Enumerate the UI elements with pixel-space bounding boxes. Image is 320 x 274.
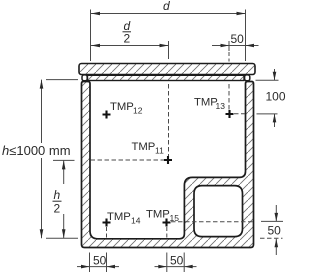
- svg-text:d: d: [163, 0, 170, 13]
- label TMP13: [194, 97, 225, 112]
- svg-text:100: 100: [266, 90, 286, 104]
- TMP13 leader line horizontal to right wall (dashed): [234, 113, 245, 115]
- svg-text:50: 50: [231, 32, 245, 46]
- label TMP12: [110, 101, 143, 116]
- TMP15 leader line to floor (dashed): [166, 227, 168, 239]
- svg-text:TMP: TMP: [110, 101, 134, 113]
- lid gasket right: [245, 75, 250, 81]
- svg-text:2: 2: [124, 32, 131, 46]
- svg-text:13: 13: [216, 101, 226, 111]
- svg-text:TMP: TMP: [194, 97, 218, 109]
- lid outer panel (hatched bar): [79, 64, 255, 75]
- svg-text:15: 15: [170, 213, 180, 223]
- label TMP14: [107, 211, 141, 226]
- dimension 50 (bottom middle, TMP15 offset from machine compartment step): [155, 253, 197, 273]
- dimension 100 (right, TMP12/13 depth below lid): [256, 69, 286, 127]
- dimension d (overall inner width, top): [91, 0, 246, 61]
- svg-text:TMP: TMP: [132, 141, 156, 153]
- TMP13 leader line vertical (dashed, below lid): [228, 84, 230, 110]
- label TMP15: [146, 209, 179, 224]
- svg-text:2: 2: [54, 202, 61, 216]
- measuring point cross TMP14: [103, 219, 111, 227]
- svg-text:50: 50: [268, 224, 282, 238]
- dimension h/2 (half height): [46, 160, 78, 238]
- mid-height level line (dashed): [91, 159, 167, 161]
- svg-text:h≤1000 mm: h≤1000 mm: [2, 143, 71, 158]
- svg-text:50: 50: [170, 253, 184, 267]
- measuring point cross TMP11: [164, 156, 172, 164]
- svg-text:TMP: TMP: [146, 209, 170, 221]
- dimension d/2 (half width to centre line): [91, 19, 169, 59]
- dimension 50 (right bottom, TMP14/15 height above floor): [260, 205, 283, 255]
- svg-text:11: 11: [155, 146, 164, 156]
- cabinet body cross-section (side walls, floor and machine-compartment step, hatched; machine compartment recess cut out): [82, 82, 254, 248]
- vertical centre line (dashed): [168, 84, 170, 158]
- measuring point cross TMP12: [103, 111, 111, 119]
- measuring point cross TMP13: [226, 110, 234, 118]
- svg-text:TMP: TMP: [107, 211, 131, 223]
- TMP14 leader line to floor (dashed): [106, 227, 108, 239]
- lid gasket left: [82, 75, 87, 81]
- TMP14/TMP15 level line through machine compartment (dashed): [171, 221, 254, 223]
- lid inner panel (hatched bar): [88, 75, 245, 80]
- dimension h (left, overall inner height): [2, 80, 78, 239]
- svg-text:h: h: [54, 188, 61, 202]
- svg-text:12: 12: [133, 106, 143, 116]
- svg-text:14: 14: [131, 216, 141, 226]
- label TMP11: [132, 141, 165, 156]
- dimension 50 (bottom left, TMP14 offset from left wall): [77, 253, 119, 273]
- dimension 50 (top right, TMP13 offset from right wall): [212, 32, 259, 51]
- svg-text:50: 50: [93, 253, 107, 267]
- TMP13 leader line vertical (dashed, above lid): [228, 52, 230, 62]
- measuring point cross TMP15: [163, 219, 171, 227]
